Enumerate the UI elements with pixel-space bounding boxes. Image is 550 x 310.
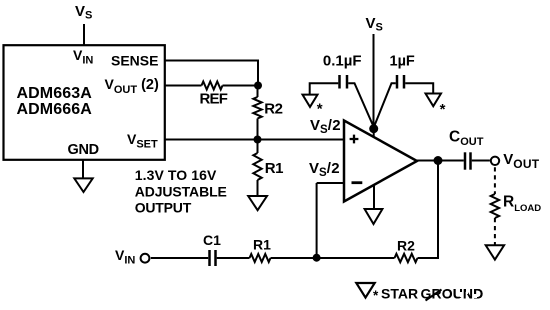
wire R1 to ground: [257, 180, 259, 196]
note text 1.3V TO 16V ADJUSTABLE OUTPUT: [135, 167, 227, 216]
svg-text:ADJUSTABLE: ADJUSTABLE: [135, 183, 227, 199]
wire R1 to node D: [271, 257, 317, 259]
svg-text:COUT: COUT: [449, 128, 484, 148]
resistor R1 (input): [250, 254, 271, 262]
wire 0.1uF left to star ground: [310, 83, 339, 94]
wire node C to op-amp top edge: [373, 129, 375, 138]
svg-text:R1: R1: [253, 237, 271, 253]
wire 0.1uF right to node C: [348, 83, 374, 127]
svg-text:R2: R2: [397, 237, 415, 253]
svg-text:VS/2: VS/2: [309, 160, 340, 179]
svg-text:VS: VS: [366, 15, 383, 34]
svg-text:1.3V TO 16V: 1.3V TO 16V: [135, 167, 217, 183]
svg-text:STAR: STAR: [381, 286, 418, 302]
wire REF to node A: [223, 85, 259, 87]
resistor REF: [202, 82, 223, 90]
wire node B to R1: [257, 140, 259, 154]
wire (dashed) VOUT to RLOAD: [494, 167, 496, 194]
resistor R1 (divider): [253, 153, 261, 180]
label STAR GROUND: [381, 283, 483, 301]
svg-text:*: *: [373, 288, 379, 303]
svg-text:0.1µF: 0.1µF: [323, 53, 362, 70]
svg-text:REF: REF: [200, 91, 228, 108]
wire VS to IC VIN pin: [83, 24, 85, 46]
IC U1 ADM663A / ADM666A: [4, 45, 165, 160]
capacitor C1: [210, 250, 216, 266]
capacitor COUT: [465, 152, 471, 169]
wire 1uF right to star ground: [405, 83, 433, 93]
wire VSET pin to op-amp + input: [165, 139, 345, 141]
svg-text:VIN: VIN: [115, 247, 135, 267]
ground (op-amp): [365, 209, 383, 224]
wire op-amp ground stem: [373, 185, 375, 210]
svg-text:GND: GND: [68, 142, 99, 158]
capacitor 1uF: [397, 75, 404, 89]
wire COUT to VOUT terminal: [472, 160, 490, 162]
resistor RLOAD: [491, 194, 499, 218]
wire GND pin to ground: [82, 160, 84, 179]
junction node D: [313, 254, 321, 262]
svg-text:VS: VS: [75, 3, 92, 22]
terminal VOUT: [491, 157, 499, 165]
svg-text:R2: R2: [264, 101, 282, 118]
wire op-amp output: [417, 160, 464, 162]
capacitor 0.1uF: [340, 75, 348, 89]
wire node A to R2: [257, 86, 259, 98]
wire C1 to R1: [217, 257, 250, 259]
wire 1uF left to node C: [374, 83, 396, 127]
terminal VIN: [141, 254, 150, 263]
svg-text:1µF: 1µF: [390, 54, 415, 70]
svg-text:ADM663A: ADM663A: [17, 85, 93, 102]
svg-text:ADM666A: ADM666A: [17, 101, 93, 118]
ground (RLOAD): [486, 245, 504, 259]
svg-text:VS/2: VS/2: [310, 117, 341, 136]
wire VOUT(2) pin to REF: [165, 85, 202, 87]
svg-text:*: *: [440, 101, 446, 118]
svg-text:*: *: [317, 101, 323, 118]
svg-text:C1: C1: [203, 232, 221, 248]
wire SENSE pin to node A: [165, 61, 259, 86]
wire - input: [317, 182, 344, 184]
ground (IC GND): [74, 178, 92, 192]
svg-text:RLOAD: RLOAD: [503, 193, 541, 214]
ground (star, 1uF): [426, 94, 442, 107]
junction node E (output): [434, 156, 443, 165]
junction node B: [254, 136, 262, 144]
svg-text:VOUT: VOUT: [503, 151, 540, 171]
junction node C (op-amp supply): [369, 124, 378, 133]
resistor R2 (divider): [253, 97, 261, 119]
ground (star, 0.1uF): [303, 95, 318, 107]
resistor R2 (feedback): [395, 254, 418, 262]
op-amp U1: [344, 121, 417, 202]
op-amp + input mark: [350, 135, 359, 144]
junction node A: [254, 82, 262, 90]
wire node E feedback down: [418, 161, 439, 259]
svg-text:OUTPUT: OUTPUT: [135, 200, 192, 216]
svg-text:SENSE: SENSE: [111, 52, 158, 68]
wire (dashed) RLOAD to ground: [494, 218, 496, 245]
wire node D to R2: [317, 257, 395, 259]
wire VS to supply node C: [373, 34, 375, 129]
ground (star ground legend symbol): [356, 283, 374, 298]
op-amp - input mark: [352, 181, 363, 184]
svg-text:R1: R1: [265, 160, 283, 177]
wire - input to node D: [316, 183, 318, 258]
wire R2 to node B: [257, 119, 259, 140]
wire VIN to C1: [151, 257, 208, 259]
ground (R1 divider): [248, 196, 267, 210]
